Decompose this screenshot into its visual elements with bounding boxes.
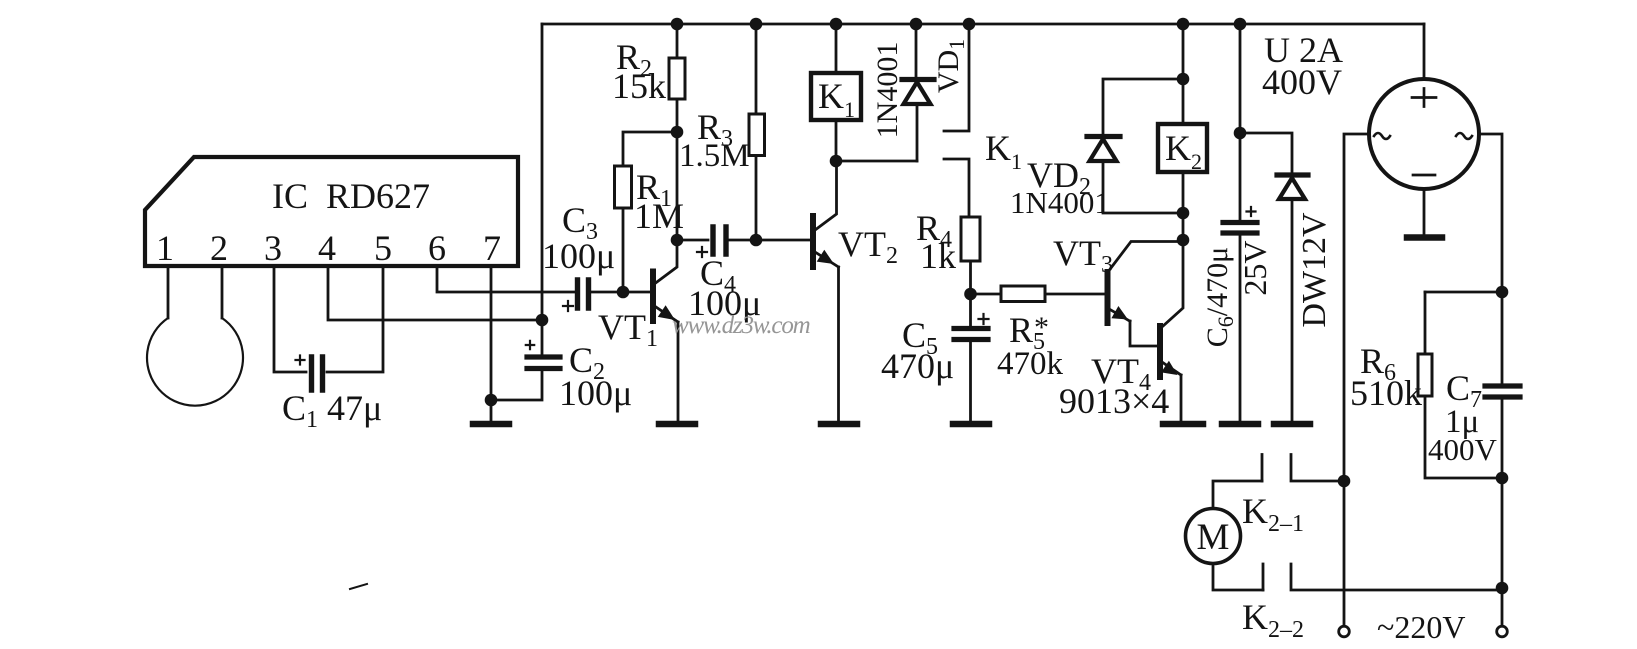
capacitor C4 plates [713,227,726,254]
capacitor C6 plus sign [1247,207,1256,216]
terminal left 220V [1339,626,1350,637]
capacitor C5 plus sign [979,314,989,324]
node dot VD2 bottom [1177,207,1190,220]
node dot rail K2 [1177,18,1190,31]
transistor VT2 emitter [815,252,839,267]
node dot rail K1 [830,18,843,31]
wire C7 bottom leg [1501,400,1504,478]
bridge plus mark [1412,89,1436,107]
svg-text:25V: 25V [1237,240,1273,295]
wire VT2 emitter to ground [837,267,840,420]
svg-text:1.5M: 1.5M [679,138,750,174]
transistor VT2 emitter arrow [817,250,834,264]
svg-text:400V: 400V [1262,62,1342,102]
diode VD2 cathode bar [1087,134,1120,139]
resistor R1 [615,166,632,208]
wire VT3 emitter to VT4 base [1130,321,1157,346]
transistor VT3 collector [1111,242,1184,269]
bridge minus mark [1413,174,1435,177]
capacitor C3 plus sign [563,301,573,311]
ground bridge [1407,234,1442,241]
wire R6 bottom leg [1425,396,1502,478]
diode VD1 cathode bar [902,77,934,82]
svg-text:470μ: 470μ [881,346,954,386]
switch contact K1 upper [944,24,969,131]
wire R3 bottom to base wire [755,156,758,241]
svg-text:VT2: VT2 [838,224,898,269]
svg-text:7: 7 [483,228,501,268]
svg-text:K2: K2 [1165,128,1202,174]
resistor R5 [1001,286,1045,302]
node dot R6 C7 bottom [1496,472,1509,485]
capacitor C1 plus sign [296,356,305,365]
svg-text:9013×4: 9013×4 [1059,381,1169,421]
wire motor bottom to K2-2 [1213,564,1263,590]
node dot R1 R2 junction [671,126,684,139]
node dot VT1 base [617,286,630,299]
svg-text:100μ: 100μ [559,373,632,413]
ground C6 [1222,421,1258,428]
wire K1 node to VD1 anode [836,160,917,163]
wire R2 bottom to collector node [676,99,679,240]
wire VT1 emitter to ground [677,322,680,420]
wire VT4 emitter to ground [1180,375,1183,421]
wire pin6 lead to C3 [437,266,574,292]
capacitor C3 plates [578,280,589,308]
wire left rail drop to C2 node [541,24,544,355]
svg-text:IC RD627: IC RD627 [272,176,430,216]
svg-text:4: 4 [318,228,336,268]
resistor R2 [669,58,685,99]
wire top supply rail [542,23,1424,26]
svg-text:15k: 15k [612,66,666,106]
bridge left tilde [1374,133,1390,139]
switch contact K2-2 left prong [1262,564,1265,590]
svg-text:K1: K1 [985,128,1022,174]
wire C6 bottom to ground [1239,236,1242,420]
svg-text:~220V: ~220V [1377,609,1465,645]
wire C3 to VT1 base [592,291,650,294]
wire collector node to C4 [677,239,708,242]
resistor R6 [1418,354,1432,396]
wire DW branch [1240,133,1292,172]
wire R4 bottom [969,261,972,294]
wire R6 top leg [1424,292,1427,354]
transistor VT3 emitter [1111,310,1131,321]
svg-text:1N4001: 1N4001 [1010,185,1110,220]
wire bridge plus to rail [1423,24,1426,79]
switch contact K2-1 right prong [1291,455,1344,482]
wire C4 to VT2 base [729,239,810,242]
ground pin7 [473,421,509,428]
svg-text:6: 6 [428,228,446,268]
ground VT4 [1163,421,1203,428]
zener DW triangle [1279,178,1305,199]
wire pin7 ground lead [490,266,493,420]
transistor VT3 emitter arrow [1111,306,1128,320]
svg-text:DW12V: DW12V [1296,212,1333,328]
wire R1 top to R2 node [623,132,677,166]
node dot R3 bottom [750,234,763,247]
svg-text:www.dz3w.com: www.dz3w.com [672,312,810,339]
node dot rail C6 [1234,18,1247,31]
wire VD1 anode lead [916,104,919,161]
wire motor top to K2-1 [1213,481,1262,508]
svg-text:1k: 1k [920,236,956,276]
wire node to R5 [971,293,1002,296]
capacitor C2 plus sign [526,341,534,349]
svg-text:K2–1: K2–1 [1242,491,1304,537]
wire R2 top stub [676,24,679,58]
svg-text:K2–2: K2–2 [1242,597,1304,643]
transistor VT1 emitter [655,306,679,322]
stray mark [350,584,367,589]
svg-text:470k: 470k [997,346,1064,382]
terminal right 220V [1497,626,1508,637]
wire C1 to pin5 [327,266,383,372]
node dot pin7 ground [485,394,498,407]
wire VD2 anode to node [1103,161,1183,213]
svg-text:VT1: VT1 [598,307,658,352]
wire C5 top [969,294,972,327]
svg-text:510k: 510k [1350,373,1422,413]
wire C2 bottom to ground node [491,371,542,400]
transistor VT1 emitter arrow [658,305,675,320]
wire C5 bottom to ground [969,342,972,420]
transistor VT4 emitter [1162,362,1181,375]
wire R3 top stub [755,24,758,114]
IC U1 RD627 outline [145,157,518,266]
svg-text:K1: K1 [818,76,855,122]
wire right drop to terminal [1501,478,1504,626]
switch contact K2-2 right prong [1291,564,1502,590]
wire pin2 lead [221,266,224,318]
transistor VT4 emitter arrow [1161,361,1177,375]
capacitor C4 plus sign [697,247,707,257]
ground C5 [953,421,989,428]
wire C6 top from rail [1239,24,1242,220]
svg-text:400V: 400V [1428,432,1498,467]
switch contact K2-1 left prong [1261,455,1264,482]
node dot C6 DW [1234,127,1247,140]
wire pin4 to supply node [328,266,542,320]
wire pin1 lead [167,266,170,318]
switch contact K1 lower [944,159,969,217]
relay coil K2 box [1158,124,1207,172]
svg-text:100μ: 100μ [542,236,615,276]
node dot K2-2 mains [1496,582,1509,595]
resistor R3 [749,114,765,156]
relay coil K1 box [811,73,861,120]
svg-text:1M: 1M [634,196,684,236]
diode VD2 triangle [1090,139,1117,161]
svg-text:C1 47μ: C1 47μ [282,388,382,433]
svg-text:1N4001: 1N4001 [871,42,904,139]
wire VD2 top branch [1103,79,1183,134]
capacitor C1 plates [312,357,323,390]
motor M circle [1186,509,1241,564]
svg-text:5: 5 [374,228,392,268]
transistor VT2 base bar [810,216,816,267]
bridge rectifier U circle [1369,79,1479,189]
wire VD1 top stub [915,24,918,77]
wire bridge right AC drop [1480,134,1502,292]
transistor VT2 collector [815,161,837,230]
node dot bridge right R6 [1496,286,1509,299]
ground VT1 [659,421,695,428]
wire bridge left AC drop [1344,134,1368,626]
node dot rail VD1 [910,18,923,31]
ground VT2 [821,421,857,428]
svg-text:C6/470μ: C6/470μ [1201,247,1238,347]
microphone B1 body [147,318,243,406]
wire K1 bottom to node [835,120,838,161]
node dot VT1 collector [671,234,684,247]
wire bridge minus to ground [1423,189,1426,234]
resistor R4 [961,217,980,261]
bridge right tilde [1456,133,1472,139]
node dot R4 C5 R5 [964,288,977,301]
wire K2 top stub from rail [1182,24,1185,124]
node dot rail K1 switch [963,18,976,31]
transistor VT3 base bar [1105,272,1111,323]
node dot supply C2 [536,314,549,327]
transistor VT1 base bar [650,272,656,322]
svg-text:M: M [1197,517,1230,558]
svg-text:VT3: VT3 [1053,233,1113,278]
wire K1 top stub [835,24,838,73]
wire K2 bottom to collector node [1182,172,1185,240]
capacitor C2 plates [527,357,560,369]
capacitor C7 plates [1485,386,1520,397]
node dot K2-1 mains [1338,475,1351,488]
node dot VT3 VT4 collector [1177,234,1190,247]
wire pin3 lead to C1 [274,266,306,372]
wire C7 top leg [1501,292,1504,383]
transistor VT4 collector [1163,240,1183,326]
wire DW anode to ground [1291,199,1294,420]
svg-text:1: 1 [156,228,174,268]
wire R6 C7 top link [1425,291,1502,294]
node dot VD2 top [1177,73,1190,86]
svg-text:2: 2 [210,228,228,268]
node dot K1 VD1 [830,155,843,168]
capacitor C6 plates [1223,223,1257,234]
svg-text:3: 3 [264,228,282,268]
wire R5 to VT3 base [1045,293,1104,296]
svg-text:*: * [1034,311,1049,344]
node dot rail R2 [671,18,684,31]
transistor VT1 collector [656,240,678,283]
transistor VT4 base bar [1157,326,1163,377]
wire R1 bottom to base node [622,208,625,292]
node dot rail R3 [750,18,763,31]
diode VD1 triangle [904,82,931,104]
zener DW cathode bar [1277,172,1308,177]
capacitor C5 plates [954,329,988,340]
ground DW [1274,421,1310,428]
svg-text:VD1: VD1 [932,39,969,93]
